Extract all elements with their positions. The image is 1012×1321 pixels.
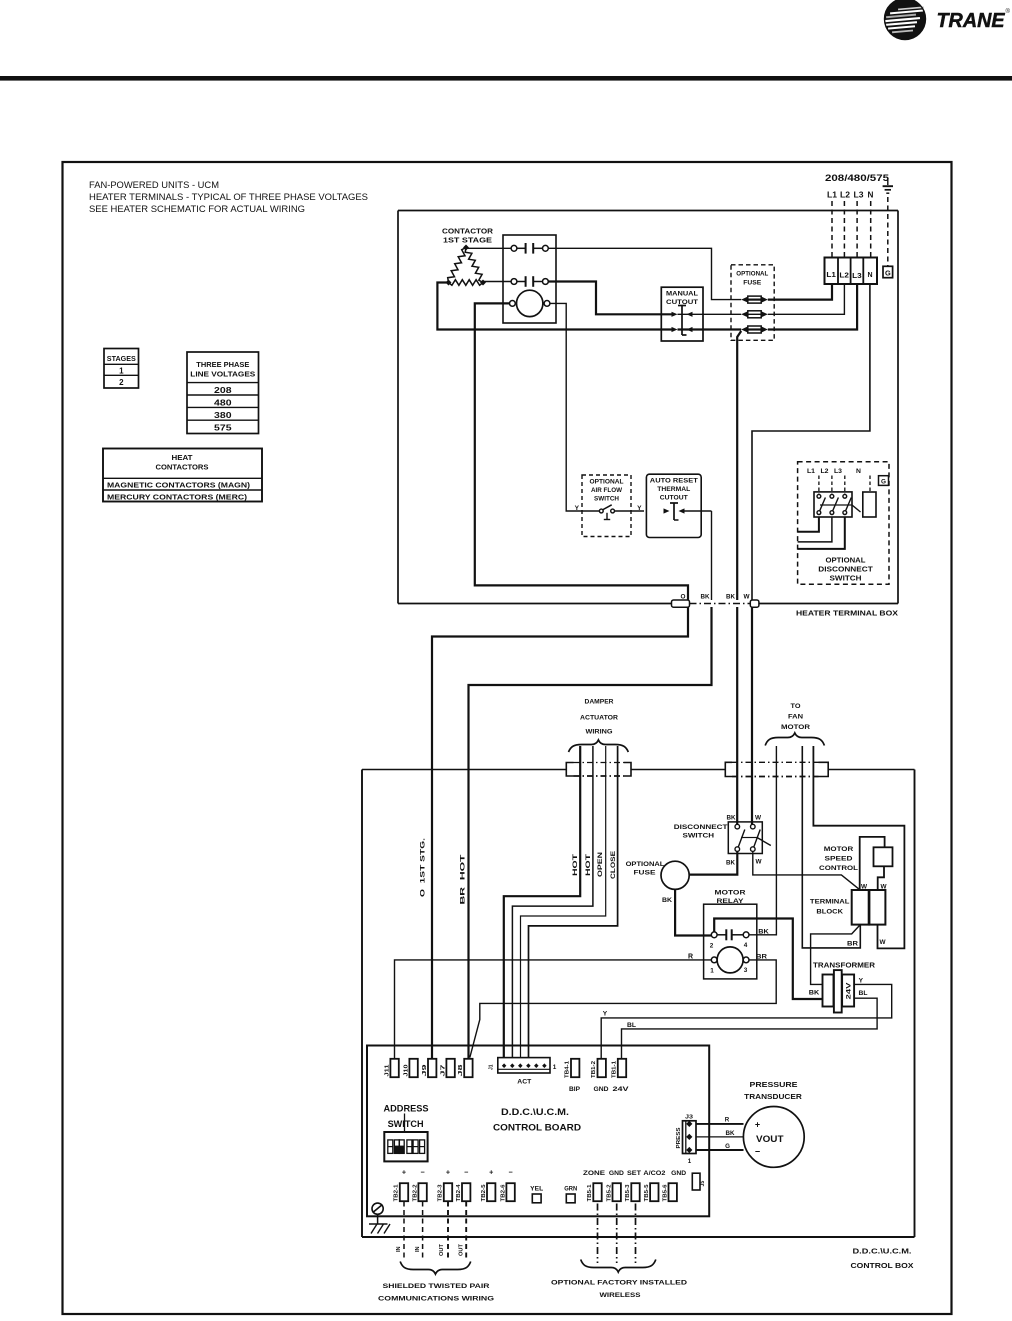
svg-text:MOTOR: MOTOR — [824, 846, 854, 853]
wire: delta left to cutout and L3 via fuse F3 — [437, 283, 857, 330]
Y wire labels — [575, 505, 643, 512]
svg-text:MANUAL: MANUAL — [666, 291, 698, 298]
disconnect stub wires — [798, 517, 845, 549]
fan disconnect labels — [674, 824, 729, 840]
BR W labels below block — [847, 939, 886, 948]
svg-text:PRESSURE: PRESSURE — [750, 1080, 798, 1089]
svg-text:TB2-3: TB2-3 — [438, 1184, 444, 1201]
manual cutout switch symbol — [672, 306, 693, 336]
svg-text:DISCONNECT: DISCONNECT — [818, 567, 873, 574]
svg-text:MOTOR: MOTOR — [715, 890, 746, 897]
svg-text:1: 1 — [119, 366, 124, 375]
wire: coil right to air flow switch — [550, 303, 582, 511]
wire: pole2 to cutout and L2 via fuse F2 — [548, 282, 844, 315]
svg-text:4: 4 — [744, 942, 748, 949]
fan wire W to terminal block left — [802, 746, 860, 948]
svg-text:BL: BL — [627, 1022, 636, 1029]
svg-text:−: − — [420, 1168, 424, 1177]
motor relay box — [704, 904, 757, 979]
heater element delta — [446, 245, 486, 286]
DDC control box caption — [851, 1247, 914, 1271]
board terminal J7 — [440, 1059, 455, 1077]
svg-text:J7: J7 — [440, 1064, 446, 1076]
svg-text:L1: L1 — [807, 468, 815, 475]
svg-text:J1: J1 — [489, 1064, 495, 1070]
svg-text:J3: J3 — [685, 1115, 693, 1121]
wire: pole1 to L1 via fuse F1 — [548, 248, 832, 299]
comm wiring dashed drops — [404, 1202, 466, 1259]
svg-text:GRN: GRN — [564, 1187, 577, 1193]
to fan motor label — [781, 703, 810, 731]
svg-text:208/480/575: 208/480/575 — [825, 172, 889, 183]
zone labels — [583, 1171, 687, 1177]
svg-text:ACTUATOR: ACTUATOR — [580, 714, 618, 721]
transformer symbol — [823, 970, 855, 1012]
svg-text:TB5-3: TB5-3 — [625, 1184, 631, 1201]
board terminal TB5-6 — [662, 1183, 677, 1201]
contactor C1 box — [503, 235, 556, 323]
svg-text:L1: L1 — [827, 191, 837, 200]
svg-text:SEE HEATER SCHEMATIC FOR ACTUA: SEE HEATER SCHEMATIC FOR ACTUAL WIRING — [89, 204, 305, 214]
svg-text:OPEN: OPEN — [597, 852, 604, 877]
svg-text:BK: BK — [726, 594, 735, 601]
svg-text:O: O — [681, 594, 686, 601]
svg-text:AIR FLOW: AIR FLOW — [591, 487, 623, 494]
svg-text:L3: L3 — [852, 271, 862, 280]
svg-text:THERMAL: THERMAL — [657, 486, 690, 493]
board terminal TB5-5 — [644, 1183, 659, 1201]
svg-text:TB2-4: TB2-4 — [456, 1184, 462, 1201]
TRANE logotype — [937, 8, 1011, 32]
svg-text:SHIELDED TWISTED PAIR: SHIELDED TWISTED PAIR — [383, 1283, 490, 1290]
dashed supply drops L1 L2 L3 N G — [832, 197, 888, 266]
splice wire labels O BK BK W — [681, 594, 751, 601]
svg-text:−: − — [464, 1168, 468, 1177]
board terminal J10 — [403, 1059, 418, 1077]
air flow switch label — [590, 479, 624, 503]
svg-text:IN: IN — [396, 1246, 402, 1252]
svg-text:ADDRESS: ADDRESS — [384, 1104, 429, 1114]
svg-text:BK: BK — [726, 1130, 736, 1137]
fan motor brace — [765, 733, 824, 746]
svg-text:L2: L2 — [840, 191, 850, 200]
terminal block label — [810, 899, 850, 916]
manual cutout box — [661, 287, 703, 341]
optional disconnect switch label — [818, 558, 873, 583]
DDC control board outline — [367, 1046, 709, 1217]
svg-text:2: 2 — [710, 943, 714, 950]
svg-text:SWITCH: SWITCH — [683, 833, 715, 840]
svg-text:TRANSFORMER: TRANSFORMER — [813, 961, 876, 970]
motor relay label — [715, 890, 746, 906]
connector J3 PRESS — [676, 1115, 696, 1166]
optional fuse circle — [661, 861, 689, 889]
svg-text:MOTOR: MOTOR — [781, 724, 810, 731]
wire: N terminal to W splice — [752, 284, 870, 600]
svg-text:G: G — [885, 268, 891, 277]
board terminal TB5-2 — [606, 1183, 621, 1201]
svg-text:SWITCH: SWITCH — [830, 576, 862, 583]
fan wire BK to relay pin4 — [749, 746, 776, 935]
board terminal TB5-1 — [587, 1183, 602, 1201]
left riser labels — [420, 838, 467, 905]
thermal cutout label — [650, 478, 698, 502]
svg-text:O 1ST STG.: O 1ST STG. — [420, 838, 427, 897]
wire: relay pin3 BR to J8 — [470, 960, 776, 1058]
svg-text:THREE PHASE: THREE PHASE — [196, 360, 249, 369]
GRN LED — [564, 1187, 577, 1203]
svg-text:L3: L3 — [834, 468, 842, 475]
svg-text:SPEED: SPEED — [825, 856, 853, 863]
svg-text:N: N — [868, 191, 874, 200]
svg-text:TB2-5: TB2-5 — [481, 1184, 487, 1201]
svg-text:HEATER TERMINAL BOX: HEATER TERMINAL BOX — [796, 611, 898, 618]
board title — [493, 1107, 581, 1133]
svg-text:J5: J5 — [700, 1181, 706, 1187]
address DIP switch — [384, 1132, 427, 1161]
wire: thermal cutout to BK splice — [711, 511, 713, 600]
wire: relay pin2 to transformer BK — [714, 919, 822, 1000]
damper brace — [569, 740, 629, 752]
optional disconnect switch dashed box — [798, 462, 889, 585]
svg-text:575: 575 — [214, 424, 232, 433]
svg-text:MAGNETIC CONTACTORS (MAGN): MAGNETIC CONTACTORS (MAGN) — [107, 481, 251, 490]
svg-text:−: − — [508, 1168, 512, 1177]
wire: contactor pole1 to delta apex — [466, 247, 511, 249]
svg-text:TO: TO — [791, 703, 801, 710]
optional fuse dashed box (top) — [731, 265, 774, 341]
board terminal TB2-5 — [481, 1183, 496, 1201]
ground terminal G box — [883, 266, 893, 277]
svg-text:CLOSE: CLOSE — [610, 850, 617, 879]
manual cutout label — [666, 291, 699, 307]
svg-text:L2: L2 — [821, 468, 829, 475]
svg-text:BK: BK — [758, 929, 769, 936]
svg-text:CONTROL BOX: CONTROL BOX — [851, 1261, 914, 1270]
wire: disconnect BK to optional fuse — [689, 851, 737, 874]
svg-text:L1: L1 — [826, 270, 836, 279]
optional air flow switch dashed box — [582, 475, 631, 537]
damper wire HOT2 — [512, 746, 593, 1058]
Y BL labels near board — [603, 1011, 636, 1030]
TRANE logo globe — [885, 0, 926, 40]
board terminal TB1-2 GND — [591, 1059, 609, 1093]
svg-text:−: − — [755, 1147, 760, 1157]
svg-text:IN: IN — [415, 1246, 421, 1252]
thermal cutout contact symbol — [664, 503, 712, 520]
transformer Y BL labels — [859, 978, 868, 998]
svg-text:TB5-2: TB5-2 — [606, 1184, 612, 1201]
svg-text:BL: BL — [859, 990, 868, 997]
YEL LED — [530, 1187, 543, 1203]
svg-text:D.D.C.\U.C.M.: D.D.C.\U.C.M. — [501, 1107, 569, 1117]
svg-text:HOT: HOT — [585, 854, 592, 876]
svg-text:208: 208 — [214, 386, 232, 395]
svg-text:OPTIONAL FACTORY INSTALLED: OPTIONAL FACTORY INSTALLED — [551, 1280, 687, 1287]
motor speed control label — [819, 846, 858, 872]
svg-text:2: 2 — [119, 378, 124, 387]
board terminal TB2-2 — [412, 1183, 427, 1201]
fuse F1 — [741, 296, 748, 302]
svg-text:TB4-1: TB4-1 — [565, 1061, 571, 1078]
svg-text:L3: L3 — [854, 191, 864, 200]
svg-text:1: 1 — [710, 968, 714, 975]
wire: BK splice down to fan disconnect — [736, 607, 738, 824]
disconnect labels L1 L2 L3 N — [807, 468, 861, 475]
wire: relay pin1 R to J11 — [395, 960, 712, 1059]
svg-text:Y: Y — [859, 978, 864, 985]
damper bulkhead connector — [566, 763, 631, 777]
title notes — [89, 180, 368, 214]
svg-text:CONTACTOR: CONTACTOR — [442, 227, 494, 236]
damper wire HOT1 — [504, 746, 580, 1058]
svg-text:TB5-1: TB5-1 — [587, 1184, 593, 1201]
transducer wires R BK G — [696, 1117, 744, 1151]
auto reset thermal cutout box — [646, 474, 701, 537]
svg-text:HEATER TERMINALS - TYPICAL OF: HEATER TERMINALS - TYPICAL OF THREE PHAS… — [89, 192, 368, 202]
DDC control box enclosure — [362, 770, 915, 1238]
svg-text:1: 1 — [688, 1158, 692, 1165]
svg-text:+: + — [489, 1168, 493, 1177]
svg-text:TRANSDUCER: TRANSDUCER — [744, 1092, 803, 1101]
fan disconnect BK W bottom — [726, 859, 762, 867]
wireless dash-dot drops — [598, 1204, 636, 1264]
svg-text:WIRING: WIRING — [586, 729, 613, 736]
splice connector at box edge — [672, 600, 759, 607]
svg-text:FUSE: FUSE — [743, 280, 761, 287]
svg-text:TRANE: TRANE — [937, 10, 1006, 32]
contactor coil — [510, 290, 550, 316]
wireless brace — [581, 1260, 656, 1273]
supply terminal block L1 L2 L3 N — [825, 258, 878, 285]
svg-text:BK: BK — [727, 815, 736, 822]
damper wire labels — [572, 850, 617, 879]
svg-text:COMMUNICATIONS WIRING: COMMUNICATIONS WIRING — [378, 1296, 494, 1303]
svg-text:+: + — [755, 1120, 760, 1130]
svg-text:BK: BK — [726, 860, 735, 867]
svg-text:TB2-2: TB2-2 — [412, 1184, 418, 1201]
svg-text:SET: SET — [627, 1171, 641, 1177]
wire: O splice down to J9 — [432, 607, 688, 1059]
svg-text:MERCURY CONTACTORS (MERC): MERCURY CONTACTORS (MERC) — [107, 493, 248, 502]
svg-text:AUTO RESET: AUTO RESET — [650, 478, 698, 485]
heater terminal box enclosure — [398, 211, 898, 604]
svg-text:YEL: YEL — [530, 1187, 543, 1193]
fan bulkhead connector — [725, 762, 828, 776]
svg-text:480: 480 — [214, 399, 232, 408]
air flow switch contacts — [582, 505, 644, 520]
wire: disconnect W to terminal block — [753, 851, 860, 889]
svg-text:OPTIONAL: OPTIONAL — [826, 558, 867, 565]
svg-text:J11: J11 — [384, 1064, 390, 1076]
svg-text:GND: GND — [671, 1171, 687, 1177]
damper wire OPEN — [521, 746, 606, 1058]
svg-text:HOT: HOT — [572, 854, 579, 876]
svg-text:FAN-POWERED UNITS - UCM: FAN-POWERED UNITS - UCM — [89, 180, 219, 190]
optional disconnect switch mechanism — [814, 492, 876, 517]
svg-text:GND: GND — [594, 1086, 610, 1093]
board ground screw — [369, 1203, 390, 1233]
svg-text:BLOCK: BLOCK — [816, 909, 843, 916]
svg-text:CONTROL BOARD: CONTROL BOARD — [493, 1123, 581, 1133]
svg-text:W: W — [755, 859, 762, 866]
damper wire CLOSE — [529, 746, 618, 1058]
board terminal TB4-1 BIP — [565, 1059, 580, 1093]
svg-text:1ST STAGE: 1ST STAGE — [443, 236, 492, 245]
svg-text:ZONE: ZONE — [583, 1171, 605, 1177]
svg-text:OPTIONAL: OPTIONAL — [736, 271, 768, 278]
svg-text:Y: Y — [637, 505, 642, 512]
svg-text:N: N — [867, 272, 872, 279]
fan disconnect BK W top — [727, 815, 762, 822]
terminal block boxes — [852, 890, 886, 925]
svg-text:24V: 24V — [613, 1086, 630, 1093]
svg-text:BK: BK — [809, 990, 820, 997]
supply line labels — [827, 191, 874, 200]
svg-text:DAMPER: DAMPER — [585, 699, 614, 706]
motor relay contact 2-4 — [710, 929, 749, 949]
svg-text:OPTIONAL: OPTIONAL — [626, 861, 665, 868]
svg-text:GND: GND — [609, 1171, 625, 1177]
wire: delta right to pole2 — [483, 281, 511, 283]
svg-text:FUSE: FUSE — [634, 870, 657, 877]
svg-text:SWITCH: SWITCH — [388, 1119, 424, 1129]
comm brace — [400, 1262, 471, 1275]
damper actuator wiring label — [580, 699, 618, 736]
pressure transducer — [743, 1107, 804, 1168]
HEAT CONTACTORS table — [103, 449, 262, 502]
svg-text:OUT: OUT — [459, 1243, 465, 1256]
svg-text:W: W — [879, 939, 886, 946]
board terminal TB2-6 — [500, 1183, 515, 1201]
svg-text:TB5-6: TB5-6 — [662, 1184, 668, 1201]
IN OUT labels — [396, 1243, 465, 1256]
motor speed control symbol — [860, 837, 893, 890]
svg-text:A/CO2: A/CO2 — [643, 1171, 666, 1177]
comm caption — [378, 1283, 494, 1303]
fuse F2 — [741, 311, 748, 317]
svg-text:380: 380 — [214, 411, 232, 420]
svg-text:CUTOUT: CUTOUT — [660, 495, 688, 502]
svg-text:ACT: ACT — [517, 1079, 531, 1086]
svg-text:TB1-1: TB1-1 — [612, 1061, 618, 1078]
contactor pole 2 — [511, 276, 548, 287]
wire: fuse F3 to BK splice — [737, 331, 741, 600]
R and BR labels — [688, 954, 767, 961]
svg-text:J10: J10 — [403, 1064, 409, 1076]
svg-text:G: G — [725, 1143, 730, 1150]
svg-text:STAGES: STAGES — [107, 354, 136, 363]
svg-text:BK: BK — [701, 594, 710, 601]
svg-text:FAN: FAN — [788, 714, 803, 721]
board terminal J11 — [384, 1059, 399, 1077]
connector J5 — [692, 1173, 706, 1190]
STAGES table — [104, 349, 139, 389]
svg-text:TB1-2: TB1-2 — [591, 1061, 597, 1078]
board terminal TB2-4 — [456, 1183, 471, 1201]
svg-text:VOUT: VOUT — [756, 1134, 784, 1144]
svg-text:G: G — [881, 479, 886, 486]
svg-text:CONTACTORS: CONTACTORS — [156, 462, 209, 471]
svg-text:BR: BR — [847, 941, 858, 948]
optional fuse label (lower) — [626, 861, 665, 877]
svg-text:1: 1 — [553, 1064, 557, 1071]
svg-text:3: 3 — [744, 967, 748, 974]
svg-text:TB2-1: TB2-1 — [394, 1184, 400, 1201]
wire: fuse to relay pin2 BK — [675, 889, 711, 935]
svg-text:J8: J8 — [458, 1064, 464, 1076]
svg-text:TB5-5: TB5-5 — [644, 1184, 650, 1201]
header rule bar — [0, 76, 1012, 81]
svg-text:WIRELESS: WIRELESS — [600, 1292, 642, 1299]
wire: coil left to O splice — [475, 303, 688, 600]
svg-text:LINE VOLTAGES: LINE VOLTAGES — [190, 370, 255, 379]
terminal block W labels — [861, 884, 888, 891]
svg-text:W: W — [755, 815, 762, 822]
fan wire W to terminal block right — [813, 746, 904, 948]
svg-text:+: + — [446, 1168, 450, 1177]
svg-text:Y: Y — [603, 1011, 608, 1018]
svg-text:OUT: OUT — [439, 1243, 445, 1256]
svg-text:TERMINAL: TERMINAL — [810, 899, 850, 906]
svg-text:PRESS: PRESS — [676, 1127, 682, 1148]
svg-text:CONTROL: CONTROL — [819, 865, 858, 872]
svg-text:BK: BK — [662, 897, 672, 904]
svg-text:24V: 24V — [846, 982, 853, 1000]
board terminal TB2-3 — [438, 1183, 452, 1201]
motor relay coil 1-3 — [710, 947, 749, 975]
svg-text:TB2-6: TB2-6 — [500, 1184, 506, 1201]
svg-text:W: W — [743, 594, 750, 601]
wire: transformer Y to TB1-2 — [601, 984, 892, 1059]
svg-text:BIP: BIP — [569, 1086, 580, 1093]
svg-text:SWITCH: SWITCH — [594, 496, 619, 503]
wire: transformer BL to TB1-1 — [622, 998, 878, 1059]
board terminal J8 — [458, 1059, 473, 1077]
disconnect dashed leads — [819, 476, 870, 495]
svg-text:D.D.C.\U.C.M.: D.D.C.\U.C.M. — [853, 1247, 912, 1256]
wire: W splice down to fan disconnect — [751, 607, 753, 825]
svg-text:OPTIONAL: OPTIONAL — [590, 479, 624, 486]
svg-text:HEAT: HEAT — [172, 453, 194, 462]
svg-text:BR HOT: BR HOT — [460, 853, 467, 904]
fan disconnect switch box — [728, 822, 771, 854]
optional fuse label — [736, 271, 768, 287]
connector J1 ACT — [489, 1058, 557, 1086]
THREE PHASE LINE VOLTAGES table — [187, 352, 259, 434]
wire: block left to transformer BR — [811, 925, 861, 985]
polarity labels — [402, 1168, 513, 1177]
board terminal J9 — [422, 1059, 437, 1077]
board terminal TB1-1 24V — [612, 1059, 630, 1093]
fuse F3 — [741, 326, 748, 332]
svg-text:L2: L2 — [839, 271, 849, 280]
svg-text:®: ® — [1006, 8, 1011, 15]
svg-text:R: R — [725, 1117, 730, 1124]
contactor pole 1 — [511, 243, 548, 254]
address switch label — [384, 1104, 429, 1134]
disconnect G box — [879, 476, 889, 486]
board terminal TB5-3 — [625, 1183, 640, 1201]
svg-text:DISCONNECT: DISCONNECT — [674, 824, 729, 831]
svg-text:N: N — [856, 468, 861, 475]
drawing border frame — [63, 162, 952, 1314]
svg-text:+: + — [402, 1168, 406, 1177]
board terminal TB2-1 — [394, 1183, 408, 1201]
pressure transducer label — [744, 1080, 803, 1101]
wire: BK splice down to J8 — [469, 607, 712, 1059]
svg-text:J9: J9 — [422, 1064, 428, 1076]
